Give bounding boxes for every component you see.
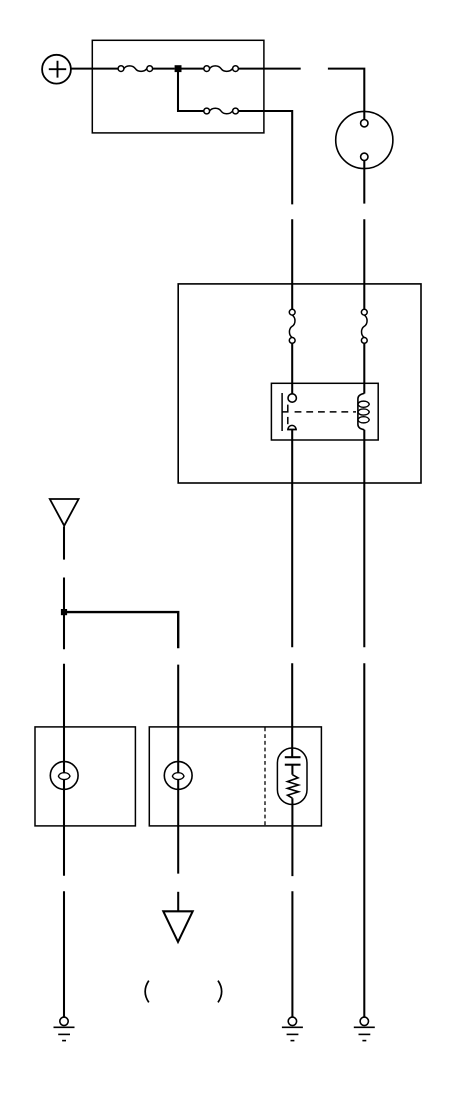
ground G1 — [54, 1017, 75, 1041]
wire F1 to connector break — [238, 68, 300, 70]
arrow connector (to another page) — [163, 911, 192, 942]
fuse F4 (vertical right) — [361, 309, 367, 343]
relay coil — [358, 393, 369, 429]
fuse F1 — [204, 66, 239, 72]
wire L2 to arrow — [177, 892, 179, 912]
fuse F3 (vertical left) — [289, 309, 295, 343]
fuse box (top) — [92, 40, 264, 133]
wire connector to ignition switch — [328, 69, 364, 120]
wire F2 to connector break — [238, 111, 292, 204]
junction node lower — [61, 609, 67, 615]
wire relay coil down — [363, 430, 365, 647]
wire right column down — [363, 663, 365, 1017]
fusible link FL — [118, 66, 153, 72]
ground G3 — [354, 1017, 375, 1041]
bulb L1 — [50, 762, 78, 790]
wire to relay box right — [363, 219, 365, 309]
relay assembly box — [178, 284, 421, 483]
relay box — [271, 383, 378, 440]
wire lighter to ground — [291, 891, 293, 1017]
wire junction to fuse F1 — [182, 68, 204, 70]
wire F4 to relay coil — [363, 343, 365, 393]
cigarette lighter body — [277, 748, 307, 805]
ignition switch SW — [336, 111, 393, 168]
wire junction down to row 2 — [178, 69, 204, 111]
wire to cigarette lighter — [291, 663, 293, 757]
wire FL to junction — [153, 68, 175, 70]
wire L1 to ground — [63, 891, 65, 1017]
ground G2 — [282, 1017, 303, 1041]
bulb L2 — [164, 762, 192, 790]
wire lighter down — [291, 798, 293, 876]
wire relay contact down — [291, 430, 293, 648]
wire battery to fuse box — [71, 68, 118, 70]
wire to relay box left — [291, 219, 293, 309]
lamp box right — [149, 727, 321, 826]
relay moving contact — [287, 417, 297, 430]
relay contact terminal — [288, 394, 296, 402]
wire branch to middle column — [64, 612, 178, 648]
wire to junction — [63, 578, 65, 650]
wire L2 down — [177, 779, 179, 873]
junction node — [175, 65, 182, 72]
relay actuation dashed link — [295, 411, 356, 413]
dashed internal separator — [264, 728, 266, 826]
relay fixed contact arm — [282, 405, 288, 412]
battery positive terminal B+ — [42, 55, 71, 84]
label parentheses ( ) — [145, 981, 222, 1003]
cigarette lighter element — [285, 757, 301, 798]
lamp box left — [35, 727, 135, 826]
wire L1 down — [63, 779, 65, 876]
wire middle column to lamp box — [177, 665, 179, 773]
relay switch pole bar — [281, 393, 283, 431]
wire below triangle — [63, 527, 65, 560]
wire ignition switch down — [363, 161, 365, 204]
wire left column to lamp box — [63, 664, 65, 773]
wire F3 to relay contact — [291, 343, 293, 394]
connector triangle (from another page) — [50, 499, 79, 526]
fuse F2 — [204, 108, 239, 114]
